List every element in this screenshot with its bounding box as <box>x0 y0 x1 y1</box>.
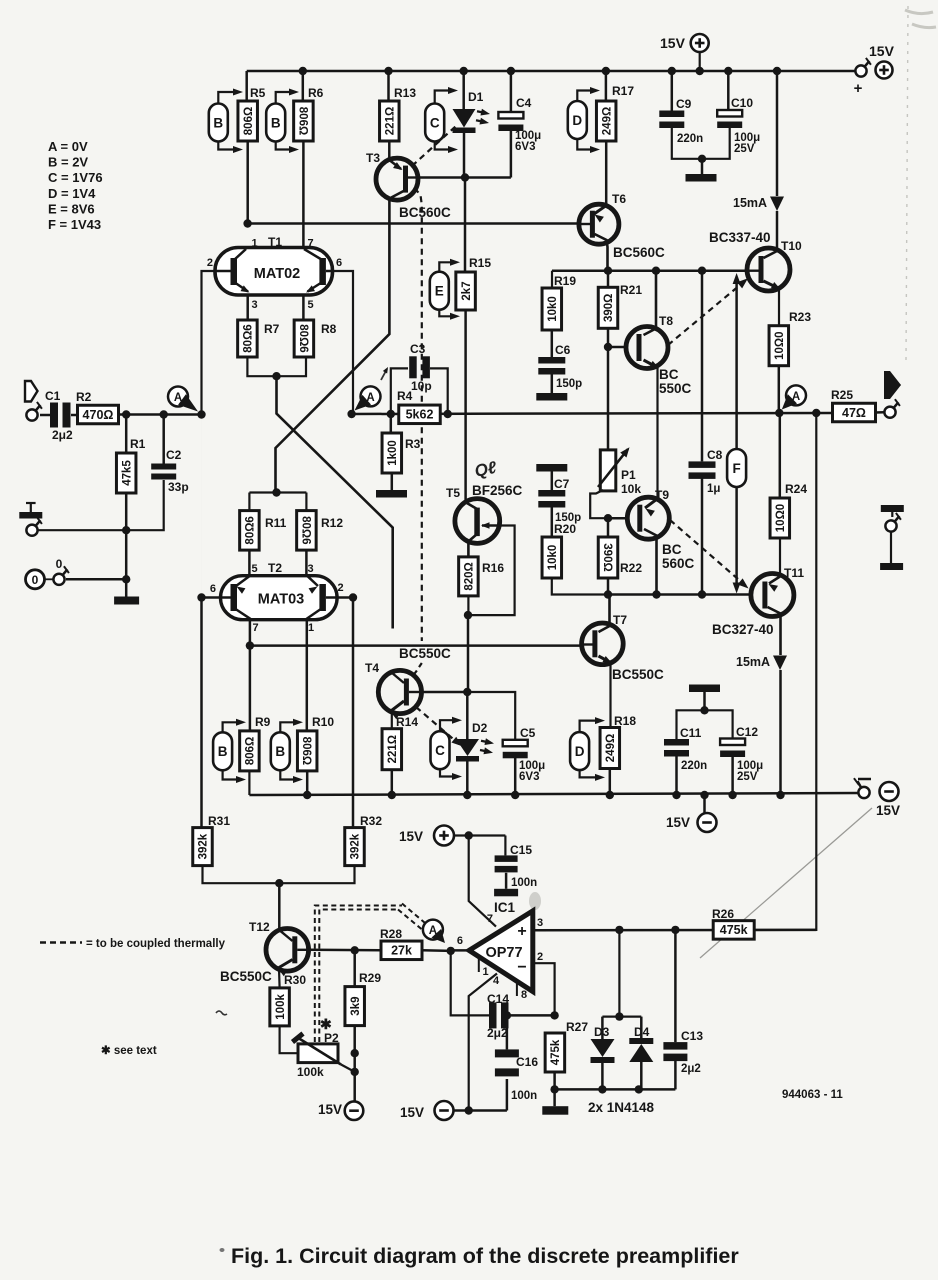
svg-text:3k9: 3k9 <box>350 997 362 1016</box>
svg-text:C2: C2 <box>166 448 182 462</box>
svg-text:R13: R13 <box>394 86 416 100</box>
svg-text:D1: D1 <box>468 90 484 104</box>
svg-text:B: B <box>213 115 223 130</box>
svg-text:BC560C: BC560C <box>613 245 665 260</box>
svg-text:F = 1V43: F = 1V43 <box>48 217 101 232</box>
svg-text:80Ω6: 80Ω6 <box>243 324 255 352</box>
svg-text:806Ω: 806Ω <box>300 737 312 765</box>
svg-text:100n: 100n <box>511 1090 537 1102</box>
svg-text:390Ω: 390Ω <box>603 294 615 322</box>
svg-text:✱ see text: ✱ see text <box>101 1045 157 1057</box>
svg-text:C4: C4 <box>516 96 532 110</box>
svg-text:6: 6 <box>210 583 216 595</box>
svg-text:R15: R15 <box>469 256 491 270</box>
svg-text:R20: R20 <box>554 522 576 536</box>
svg-text:100k: 100k <box>275 994 287 1020</box>
svg-text:A: A <box>792 391 800 403</box>
svg-text:R30: R30 <box>284 973 306 987</box>
svg-text:B = 2V: B = 2V <box>48 155 88 170</box>
svg-text:R22: R22 <box>620 561 642 575</box>
svg-text:T3: T3 <box>366 151 380 165</box>
svg-text:B: B <box>218 744 228 759</box>
svg-text:1k00: 1k00 <box>387 440 399 466</box>
svg-text:T5: T5 <box>446 486 460 500</box>
svg-text:390Ω: 390Ω <box>601 543 613 571</box>
svg-text:BC550C: BC550C <box>399 646 451 661</box>
svg-text:100n: 100n <box>511 877 537 889</box>
svg-text:10p: 10p <box>411 379 432 393</box>
svg-text:T2: T2 <box>268 561 282 575</box>
svg-text:R21: R21 <box>620 283 642 297</box>
svg-text:= to be coupled thermally: = to be coupled thermally <box>86 938 226 950</box>
svg-text:T12: T12 <box>249 920 270 934</box>
svg-text:R3: R3 <box>405 437 421 451</box>
svg-text:T8: T8 <box>659 314 673 328</box>
svg-text:1μ: 1μ <box>707 483 720 495</box>
svg-text:BC: BC <box>659 367 679 382</box>
svg-text:C3: C3 <box>410 342 426 356</box>
svg-text:P1: P1 <box>621 468 636 482</box>
svg-text:R8: R8 <box>321 322 337 336</box>
svg-text:E: E <box>435 284 444 299</box>
svg-text:C6: C6 <box>555 343 571 357</box>
svg-text:150p: 150p <box>556 378 582 390</box>
svg-text:C: C <box>430 115 440 130</box>
svg-text:221Ω: 221Ω <box>387 735 399 763</box>
svg-text:25V: 25V <box>737 771 758 783</box>
svg-text:806Ω: 806Ω <box>245 737 257 765</box>
svg-text:25V: 25V <box>734 143 755 155</box>
svg-text:5k62: 5k62 <box>406 408 434 422</box>
svg-text:220n: 220n <box>681 760 707 772</box>
svg-text:2μ2: 2μ2 <box>681 1063 701 1075</box>
svg-text:15V: 15V <box>660 35 686 51</box>
svg-text:R11: R11 <box>265 516 287 530</box>
svg-text:R10: R10 <box>312 715 334 729</box>
svg-text:MAT03: MAT03 <box>258 592 304 608</box>
svg-text:80Ω6: 80Ω6 <box>299 516 311 544</box>
svg-text:2: 2 <box>207 257 213 269</box>
svg-text:C10: C10 <box>731 96 753 110</box>
svg-text:7: 7 <box>487 913 493 925</box>
svg-text:C16: C16 <box>516 1055 538 1069</box>
svg-text:C = 1V76: C = 1V76 <box>48 170 103 185</box>
svg-text:MAT02: MAT02 <box>254 266 300 282</box>
svg-text:D: D <box>575 744 585 759</box>
svg-text:560C: 560C <box>662 556 695 571</box>
svg-text:820Ω: 820Ω <box>464 562 476 590</box>
svg-text:27k: 27k <box>391 944 412 958</box>
svg-text:BC: BC <box>662 542 682 557</box>
svg-text:BC550C: BC550C <box>220 969 272 984</box>
svg-text:15V: 15V <box>869 43 895 59</box>
svg-text:15mA: 15mA <box>736 655 770 669</box>
svg-text:944063 - 11: 944063 - 11 <box>782 1089 843 1101</box>
svg-text:7: 7 <box>253 622 259 634</box>
svg-text:R14: R14 <box>396 715 418 729</box>
svg-text:2: 2 <box>338 582 344 594</box>
svg-text:R1: R1 <box>130 437 146 451</box>
svg-text:R26: R26 <box>712 907 734 921</box>
svg-text:33p: 33p <box>168 480 189 494</box>
svg-text:80Ω6: 80Ω6 <box>297 324 309 352</box>
svg-text:15V: 15V <box>400 1105 424 1120</box>
svg-text:IC1: IC1 <box>494 900 516 915</box>
svg-text:R2: R2 <box>76 390 92 404</box>
svg-text:249Ω: 249Ω <box>601 107 613 135</box>
svg-text:B: B <box>271 115 281 130</box>
svg-text:10Ω0: 10Ω0 <box>774 331 786 359</box>
svg-text:R28: R28 <box>380 927 402 941</box>
svg-text:470Ω: 470Ω <box>83 408 114 422</box>
svg-text:R6: R6 <box>308 86 324 100</box>
svg-text:2μ2: 2μ2 <box>52 428 73 442</box>
svg-text:−: − <box>517 959 526 976</box>
svg-text:3: 3 <box>537 917 543 929</box>
svg-text:C7: C7 <box>554 477 570 491</box>
svg-text:249Ω: 249Ω <box>605 734 617 762</box>
svg-text:6V3: 6V3 <box>519 771 539 783</box>
svg-text:0: 0 <box>56 557 63 571</box>
svg-text:15V: 15V <box>876 803 900 818</box>
svg-text:D: D <box>572 113 582 128</box>
svg-text:0: 0 <box>32 573 39 587</box>
svg-text:BC327-40: BC327-40 <box>712 622 774 637</box>
svg-text:5: 5 <box>252 563 258 575</box>
svg-text:220n: 220n <box>677 133 703 145</box>
svg-text:475k: 475k <box>720 923 748 937</box>
svg-text:6: 6 <box>336 257 342 269</box>
svg-text:1: 1 <box>483 966 489 978</box>
svg-text:D3: D3 <box>594 1025 610 1039</box>
svg-text:F: F <box>732 461 740 476</box>
svg-text:221Ω: 221Ω <box>385 107 397 135</box>
svg-text:C9: C9 <box>676 97 692 111</box>
svg-text:15mA: 15mA <box>733 196 767 210</box>
svg-text:R18: R18 <box>614 714 636 728</box>
svg-text:R23: R23 <box>789 310 811 324</box>
svg-text:1: 1 <box>252 238 258 250</box>
svg-text:7: 7 <box>308 238 314 250</box>
svg-text:D4: D4 <box>634 1025 650 1039</box>
svg-text:10Ω0: 10Ω0 <box>775 504 787 532</box>
svg-text:6V3: 6V3 <box>515 141 535 153</box>
svg-text:R24: R24 <box>785 482 807 496</box>
svg-text:P2: P2 <box>324 1031 339 1045</box>
svg-text:C14: C14 <box>487 992 509 1006</box>
svg-text:R31: R31 <box>208 814 230 828</box>
svg-text:R19: R19 <box>554 274 576 288</box>
svg-text:6: 6 <box>457 935 463 947</box>
svg-text:C15: C15 <box>510 843 532 857</box>
svg-text:10k0: 10k0 <box>547 545 559 571</box>
svg-text:A: A <box>429 925 437 937</box>
svg-text:806Ω: 806Ω <box>296 107 308 135</box>
svg-text:C5: C5 <box>520 726 536 740</box>
svg-text:+: + <box>517 923 526 940</box>
svg-text:✱: ✱ <box>320 1016 332 1032</box>
svg-text:10k0: 10k0 <box>547 296 559 322</box>
svg-text:D = 1V4: D = 1V4 <box>48 186 96 201</box>
svg-text:100k: 100k <box>297 1065 324 1079</box>
svg-text:C12: C12 <box>736 725 758 739</box>
svg-text:3: 3 <box>252 299 258 311</box>
svg-text:R17: R17 <box>612 84 634 98</box>
svg-text:T6: T6 <box>612 192 626 206</box>
svg-text:Fig. 1. Circuit diagram of the: Fig. 1. Circuit diagram of the discrete … <box>231 1244 739 1268</box>
svg-text:+: + <box>854 80 863 97</box>
svg-text:T10: T10 <box>781 239 802 253</box>
svg-text:R29: R29 <box>359 971 381 985</box>
svg-text:D2: D2 <box>472 721 488 735</box>
svg-text:47Ω: 47Ω <box>842 406 866 420</box>
svg-text:15V: 15V <box>318 1102 342 1117</box>
svg-text:R7: R7 <box>264 322 280 336</box>
svg-text:B: B <box>275 744 285 759</box>
svg-text:5: 5 <box>308 299 314 311</box>
svg-text:C11: C11 <box>680 726 702 740</box>
svg-text:T4: T4 <box>365 661 379 675</box>
svg-text:BC560C: BC560C <box>399 205 451 220</box>
svg-text:T1: T1 <box>268 235 282 249</box>
svg-text:10k: 10k <box>621 482 641 496</box>
svg-text:C13: C13 <box>681 1029 703 1043</box>
svg-text:A = 0V: A = 0V <box>48 139 88 154</box>
svg-text:R27: R27 <box>566 1020 588 1034</box>
svg-text:8: 8 <box>521 989 527 1001</box>
svg-text:C1: C1 <box>45 389 61 403</box>
svg-text:R5: R5 <box>250 86 266 100</box>
svg-text:2x 1N4148: 2x 1N4148 <box>588 1100 655 1115</box>
svg-text:R25: R25 <box>831 388 853 402</box>
svg-text:15V: 15V <box>399 829 423 844</box>
svg-text:392k: 392k <box>198 833 210 859</box>
svg-text:BF256C: BF256C <box>472 483 523 498</box>
svg-text:3: 3 <box>308 563 314 575</box>
svg-text:47k5: 47k5 <box>121 460 133 486</box>
svg-text:C8: C8 <box>707 448 723 462</box>
svg-text:R12: R12 <box>321 516 343 530</box>
svg-text:A: A <box>366 392 374 404</box>
svg-text:A: A <box>174 392 182 404</box>
svg-text:475k: 475k <box>550 1039 562 1065</box>
svg-text:C: C <box>435 743 445 758</box>
svg-text:R16: R16 <box>482 561 504 575</box>
svg-text:R32: R32 <box>360 814 382 828</box>
svg-text:BC550C: BC550C <box>612 667 664 682</box>
svg-text:2μ2: 2μ2 <box>487 1026 508 1040</box>
svg-text:BC337-40: BC337-40 <box>709 230 771 245</box>
svg-text:2k7: 2k7 <box>461 281 473 300</box>
svg-text:1: 1 <box>308 622 314 634</box>
svg-text:550C: 550C <box>659 381 692 396</box>
svg-text:2: 2 <box>537 951 543 963</box>
svg-text:80Ω6: 80Ω6 <box>245 516 257 544</box>
svg-text:15V: 15V <box>666 815 690 830</box>
svg-text:R9: R9 <box>255 715 271 729</box>
svg-text:E = 8V6: E = 8V6 <box>48 201 95 216</box>
svg-text:392k: 392k <box>350 833 362 859</box>
svg-text:806Ω: 806Ω <box>243 107 255 135</box>
